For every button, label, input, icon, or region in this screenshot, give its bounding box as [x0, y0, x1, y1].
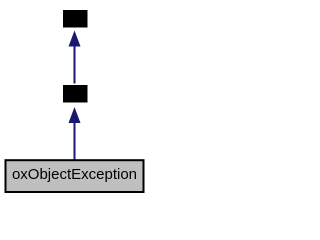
inheritance arrow 1 (to base class)	[69, 31, 81, 84]
svg-text:oxObjectException: oxObjectException	[12, 166, 137, 183]
node: oxObjectException (current class, gray box)	[6, 160, 144, 192]
node: base class (undocumented, solid black box)	[63, 10, 88, 28]
inheritance arrow 2 (to parent class)	[69, 107, 81, 160]
node: parent class oxException (undocumented, solid black box)	[63, 85, 88, 103]
